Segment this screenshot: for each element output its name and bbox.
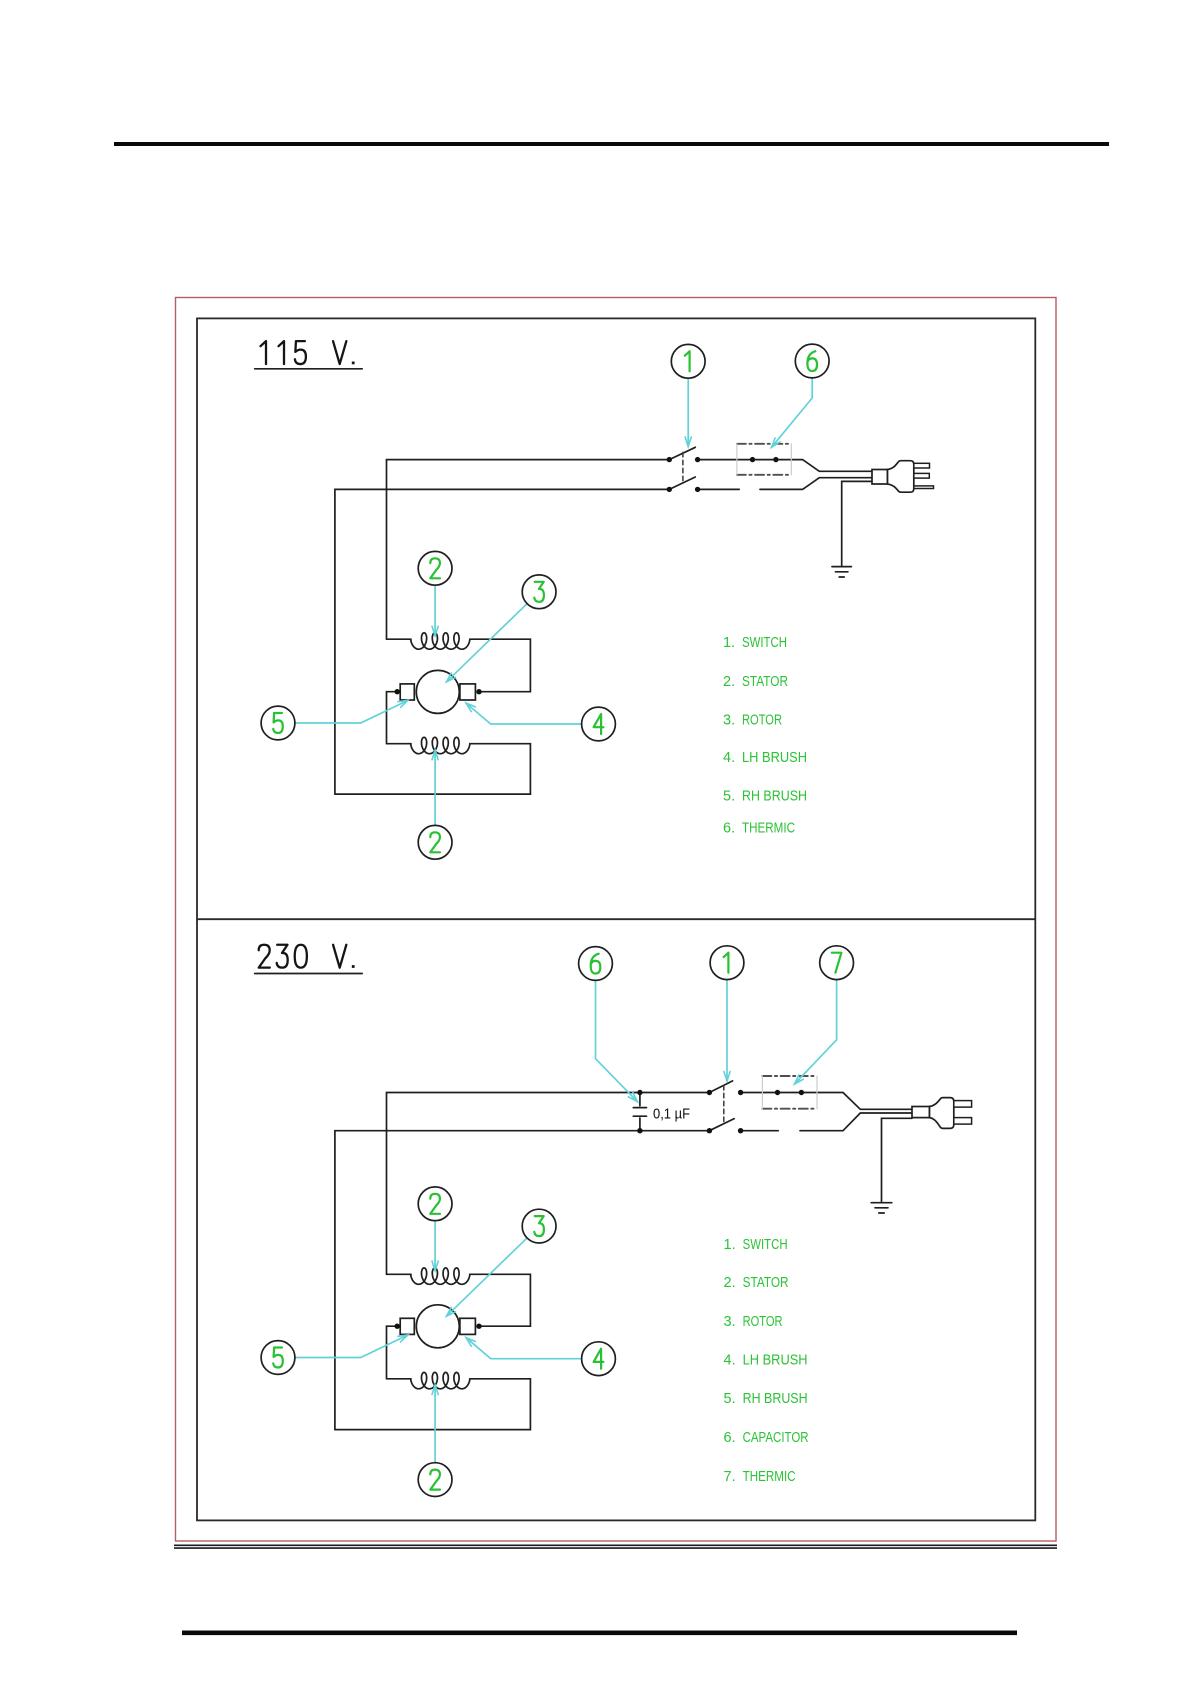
callout 3 — [522, 575, 556, 609]
svg-text:4.: 4. — [723, 750, 735, 766]
svg-text:RH BRUSH: RH BRUSH — [743, 1391, 808, 1407]
callout 5 — [261, 706, 295, 740]
leader callout 6 (capacitor) — [596, 980, 638, 1101]
earth conductor from plug (230V) — [882, 1118, 913, 1201]
wire: switch to cord (bottom, with gap) — [698, 478, 872, 490]
svg-text:ROTOR: ROTOR — [743, 1314, 783, 1330]
bottom page rule — [182, 1631, 1017, 1636]
legend 230V — [724, 1237, 809, 1485]
callout bubbles 115V — [261, 344, 829, 859]
leader callout 4 (230V) — [466, 1338, 582, 1359]
callout 2 (lower stator) — [418, 825, 452, 859]
callout 7 (230V) — [820, 946, 854, 980]
thermic protector box (230V) — [762, 1075, 817, 1077]
leader callout 2 bottom (230V) — [434, 1385, 436, 1463]
stator lower coil (115V) — [387, 692, 412, 744]
black inner box — [197, 318, 1035, 1520]
svg-text:6.: 6. — [724, 1430, 736, 1446]
switch dashed link — [682, 452, 684, 482]
svg-text:STATOR: STATOR — [743, 1275, 789, 1291]
divider line between 115V and 230V panels — [197, 918, 1035, 920]
svg-text:SWITCH: SWITCH — [743, 1237, 788, 1253]
svg-text:3.: 3. — [723, 713, 735, 729]
callout 6 — [795, 344, 829, 378]
title underline — [255, 973, 363, 975]
junction dots (230V) — [637, 1090, 804, 1134]
leader callout 5 (230V) — [295, 1335, 408, 1358]
wire bottom: switch to far-left vertical down to bottom horizontal — [335, 489, 669, 794]
leader callout 2 bottom — [434, 750, 436, 825]
top page rule — [114, 142, 1109, 146]
svg-text:STATOR: STATOR — [742, 674, 788, 690]
wire top: switch to left vertical down to upper coil — [387, 460, 670, 639]
brush terminal dots — [395, 689, 482, 694]
leader callout 1 (switch) — [726, 980, 728, 1082]
plug pin upper (230V) — [954, 1101, 972, 1108]
switch dashed link (230V) — [723, 1085, 725, 1123]
wire: switch to thermic to cord (top) — [698, 460, 872, 472]
callout 1 — [671, 344, 705, 378]
svg-text:1.: 1. — [724, 1237, 736, 1253]
stator lower coil (230V) — [387, 1326, 412, 1379]
junction dots on switch and thermic — [667, 457, 779, 492]
wire: switch to cord (bottom with gap, 230V) — [741, 1113, 912, 1131]
title 230 V. — [259, 945, 355, 968]
svg-text:SWITCH: SWITCH — [742, 635, 787, 651]
callout 5 (230V) — [261, 1341, 295, 1375]
callout 2 upper (230V) — [418, 1187, 452, 1221]
callout 2 lower (230V) — [418, 1463, 452, 1497]
leader callout 3 — [447, 604, 528, 682]
switch S1 blades (230V) — [709, 1081, 732, 1093]
svg-text:4.: 4. — [724, 1353, 736, 1369]
wire: switch to thermic to cord (top, 230V) — [741, 1093, 912, 1110]
svg-text:LH BRUSH: LH BRUSH — [743, 1353, 808, 1369]
cyan leaders 115V — [295, 378, 812, 826]
rotor (230V) — [416, 1305, 459, 1348]
stator upper coil (115V) — [387, 638, 412, 640]
leader callout 7 (thermic) — [795, 980, 837, 1085]
svg-text:2.: 2. — [723, 674, 735, 690]
svg-text:ROTOR: ROTOR — [742, 713, 782, 729]
svg-text:THERMIC: THERMIC — [743, 1469, 796, 1485]
svg-text:RH BRUSH: RH BRUSH — [742, 789, 807, 805]
callout 2 (upper stator) — [418, 551, 452, 585]
callout 1 (230V) — [710, 946, 744, 980]
double line under red frame — [174, 1544, 1057, 1546]
stator upper coil (230V) — [387, 1273, 412, 1275]
title 115 V. — [261, 341, 355, 364]
svg-text:2.: 2. — [724, 1275, 736, 1291]
svg-text:CAPACITOR: CAPACITOR — [743, 1430, 809, 1446]
rotor (115V) — [416, 670, 459, 713]
ground symbol (230V) — [871, 1202, 892, 1204]
callout 6 (230V) — [579, 947, 613, 981]
callout 3 (230V) — [522, 1209, 556, 1243]
svg-text:5.: 5. — [724, 1391, 736, 1407]
svg-text:1.: 1. — [723, 635, 735, 651]
svg-text:LH BRUSH: LH BRUSH — [742, 750, 807, 766]
RH brush (230V) — [460, 1318, 476, 1334]
plug pin (line) — [914, 463, 930, 468]
svg-text:3.: 3. — [724, 1314, 736, 1330]
svg-text:7.: 7. — [724, 1469, 736, 1485]
leader callout 6 — [772, 378, 813, 448]
title underline — [255, 368, 363, 370]
cyan leaders 230V — [295, 980, 837, 1463]
wire top: capacitor node to switch, left vertical to upper coil — [387, 1093, 710, 1275]
mains plug (115V, 3-pin) — [872, 470, 888, 485]
earth conductor from plug — [842, 481, 872, 565]
callout bubbles 230V — [261, 946, 853, 1497]
callout 4 (230V) — [582, 1342, 616, 1376]
legend 115V — [723, 635, 807, 836]
plug pin (neutral) — [914, 473, 930, 478]
leader callout 3 (230V) — [447, 1238, 528, 1316]
leader callout 2 top (230V) — [434, 1221, 436, 1271]
red outer frame — [176, 298, 1057, 1542]
ground symbol — [832, 566, 851, 568]
mains plug (230V, 2-pin) — [912, 1107, 930, 1118]
plug pin lower (230V) — [954, 1118, 972, 1125]
leader callout 2 top — [434, 585, 436, 636]
svg-text:0,1 µF: 0,1 µF — [653, 1105, 690, 1122]
leader callout 4 — [466, 703, 582, 724]
leader callout 5 — [295, 700, 408, 723]
svg-text:5.: 5. — [723, 789, 735, 805]
thermic protector box (dash-dot) — [737, 443, 791, 445]
LH brush — [400, 684, 414, 700]
capacitor value label — [653, 1105, 690, 1122]
leader callout 1 — [687, 378, 689, 446]
RH brush — [460, 684, 476, 700]
plug pin (earth, long) — [914, 486, 934, 489]
callout 4 — [582, 707, 616, 741]
svg-text:6.: 6. — [723, 820, 735, 836]
switch S1 blades — [669, 447, 695, 459]
svg-text:THERMIC: THERMIC — [742, 820, 795, 836]
brush terminal dots (230V) — [395, 1324, 482, 1329]
wire bottom: switch to far-left vertical down to bottom horizontal — [335, 1131, 710, 1430]
capacitor C1 — [633, 1093, 646, 1131]
LH brush (230V) — [400, 1318, 414, 1334]
